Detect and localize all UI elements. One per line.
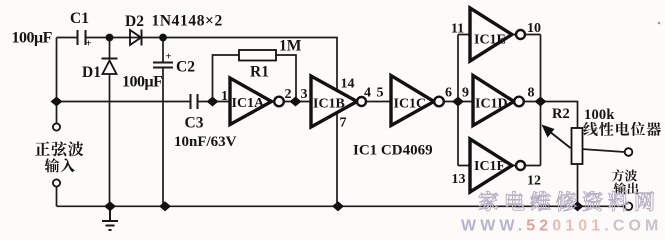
svg-text:+: + <box>166 52 172 63</box>
node C2/ground junction <box>160 202 170 211</box>
label output (shu chu) <box>614 182 626 194</box>
svg-text:8: 8 <box>528 86 535 101</box>
svg-text:IC1D: IC1D <box>475 97 508 112</box>
ground <box>102 206 118 230</box>
op-amp inverter U-IC1E <box>470 8 512 61</box>
svg-text:C2: C2 <box>176 59 195 76</box>
svg-text:14: 14 <box>341 77 355 92</box>
op-amp inverter U-IC1B <box>311 76 357 127</box>
svg-text:3: 3 <box>301 87 308 102</box>
op-amp inverter U-IC1A <box>230 78 272 125</box>
wire top rail <box>57 38 338 93</box>
svg-text:C1: C1 <box>70 10 89 27</box>
svg-text:4: 4 <box>364 86 371 101</box>
svg-text:IC1F: IC1F <box>474 159 505 174</box>
label linear potentiometer (xian xing dian wei qi) <box>583 122 597 136</box>
output terminal upper <box>625 148 633 156</box>
wire pot bottom <box>577 164 579 206</box>
node pin6/9 junction <box>453 97 463 106</box>
wire bottom rail <box>57 205 625 207</box>
svg-text:10nF/63V: 10nF/63V <box>174 134 237 150</box>
node input junction <box>51 97 61 106</box>
svg-text:5: 5 <box>377 86 384 101</box>
op-amp inverter U-IC1D <box>473 76 514 126</box>
svg-text:10: 10 <box>527 21 541 36</box>
svg-text:100μF: 100μF <box>12 30 53 47</box>
input terminal upper <box>53 123 60 130</box>
capacitor C2 <box>153 63 173 68</box>
svg-text:IC1 CD4069: IC1 CD4069 <box>353 143 433 159</box>
output terminal lower <box>625 203 633 211</box>
label input (shu ru) <box>45 158 60 172</box>
node C1/D1/D2 junction <box>106 34 114 42</box>
svg-text:100μF: 100μF <box>122 74 163 91</box>
svg-text:WWW.520101.COM: WWW.520101.COM <box>461 218 662 235</box>
svg-text:11: 11 <box>451 22 464 37</box>
op-amp inverter U-IC1C <box>391 76 434 126</box>
svg-text:C3: C3 <box>185 115 204 132</box>
watermark chinese outline text <box>479 191 498 211</box>
svg-text:13: 13 <box>452 172 466 187</box>
capacitor C1 <box>78 30 86 45</box>
svg-text:R2: R2 <box>552 106 570 122</box>
svg-text:1M: 1M <box>279 38 302 55</box>
svg-text:9: 9 <box>462 86 469 101</box>
wire IC1E/IC1F input vertical <box>458 35 470 166</box>
svg-text:2: 2 <box>285 87 292 102</box>
svg-text:100k: 100k <box>584 107 615 123</box>
node pin8 junction <box>535 97 545 106</box>
node pin2/3 junction <box>290 97 300 106</box>
diode D2 <box>130 30 141 45</box>
node pin7/ground junction <box>333 202 343 211</box>
node ground junction <box>105 202 115 211</box>
label sine wave input (zheng xian bo) <box>35 141 50 155</box>
svg-text:7: 7 <box>340 116 347 131</box>
wire left input vertical <box>56 38 58 207</box>
potentiometer R2 wiper arrow <box>547 130 571 149</box>
wire pin7 IC1B to ground rail <box>336 111 338 206</box>
svg-text:D1: D1 <box>82 64 101 81</box>
svg-text:IC1B: IC1B <box>313 97 345 112</box>
potentiometer R2 body <box>572 128 583 164</box>
speck top right <box>658 22 661 25</box>
svg-text:6: 6 <box>445 86 452 101</box>
resistor R1 <box>239 50 276 61</box>
label square wave (fang bo) <box>612 169 624 181</box>
svg-text:1: 1 <box>221 89 228 104</box>
wire C2 branch <box>162 38 164 207</box>
capacitor C3 <box>191 94 198 109</box>
wire IC1E/IC1F output vertical <box>512 35 541 166</box>
wire D1 branch <box>109 38 111 207</box>
node pot/ground junction <box>572 202 582 211</box>
diode D1 <box>102 58 118 60</box>
wire pot wiper to output terminal <box>581 149 625 152</box>
svg-text:D2: D2 <box>125 13 144 30</box>
wire R1 feedback loop <box>213 55 297 102</box>
svg-text:R1: R1 <box>250 64 269 81</box>
input terminal lower <box>53 179 60 186</box>
op-amp inverter U-IC1F <box>470 139 512 192</box>
svg-text:+: + <box>86 39 92 50</box>
node D2/C2 junction <box>159 34 167 42</box>
svg-text:IC1E: IC1E <box>474 33 506 48</box>
svg-text:IC1C: IC1C <box>394 97 427 112</box>
wire mid rail <box>57 102 578 129</box>
svg-text:IC1A: IC1A <box>232 96 266 111</box>
svg-text:12: 12 <box>527 174 541 189</box>
node pin1 junction <box>207 97 217 106</box>
svg-text:1N4148×2: 1N4148×2 <box>152 13 223 30</box>
